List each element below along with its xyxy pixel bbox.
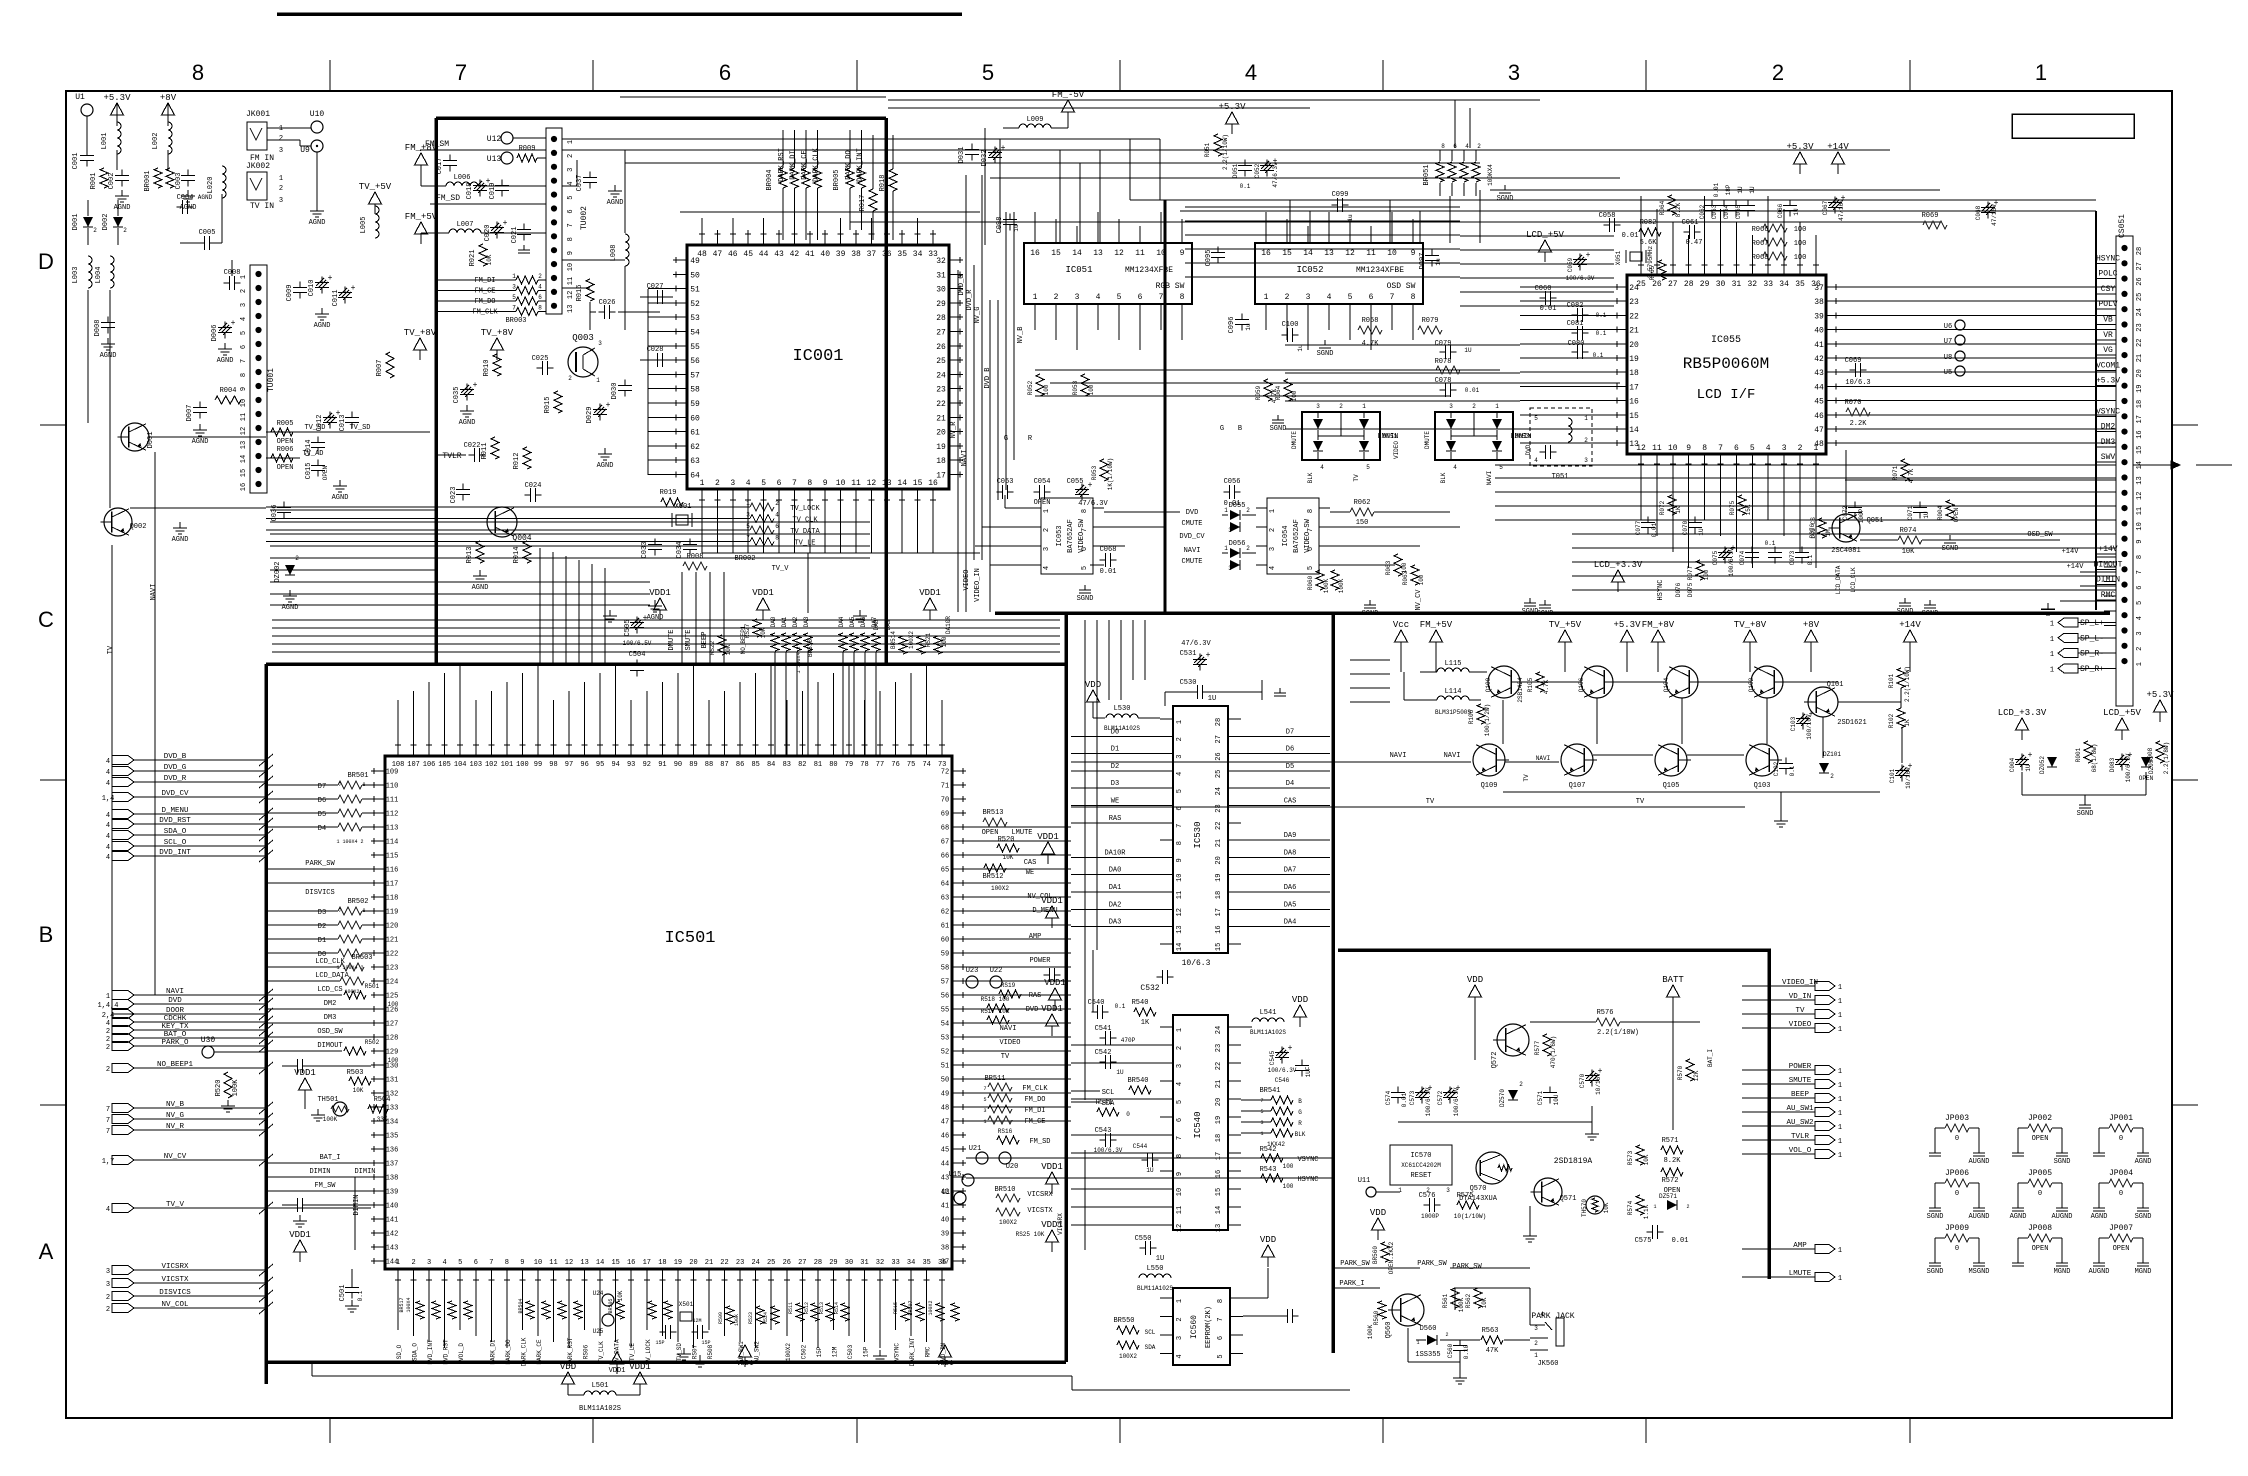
svg-text:R: R: [1298, 1120, 1302, 1127]
svg-text:BR507: BR507: [908, 1300, 914, 1315]
svg-text:12: 12: [1345, 249, 1355, 258]
svg-text:30: 30: [845, 1259, 853, 1267]
svg-text:100P: 100P: [1858, 508, 1865, 523]
connector TU002: [546, 128, 562, 314]
svg-text:TV_V: TV_V: [166, 1201, 185, 1209]
svg-text:7: 7: [1176, 824, 1184, 828]
svg-text:DA3: DA3: [1109, 919, 1122, 927]
svg-text:R062: R062: [1354, 499, 1371, 507]
svg-text:R079: R079: [1422, 317, 1439, 325]
capacitor C004r: [2021, 754, 2023, 760]
svg-text:BLK: BLK: [1295, 1131, 1306, 1138]
svg-text:C101: C101: [1889, 768, 1896, 783]
svg-text:D7: D7: [318, 783, 326, 791]
svg-text:3: 3: [106, 1268, 110, 1276]
svg-text:CAS: CAS: [1024, 859, 1037, 867]
wire bat dimin fmsw: [266, 1162, 371, 1164]
svg-text:TV: TV: [1523, 774, 1530, 782]
svg-text:TV: TV: [1636, 798, 1645, 806]
svg-text:L008: L008: [610, 245, 618, 262]
svg-text:7: 7: [1217, 1317, 1225, 1321]
svg-text:8: 8: [1411, 293, 1416, 302]
capacitor D006: [224, 322, 226, 328]
capacitor C053: [997, 491, 1003, 493]
resistor R004: [215, 396, 241, 404]
svg-text:VDD: VDD: [1467, 975, 1483, 985]
resistor R543: [1261, 1174, 1283, 1182]
svg-text:Q104: Q104: [1663, 677, 1670, 692]
svg-text:131: 131: [386, 1077, 399, 1085]
svg-text:100: 100: [1043, 384, 1050, 395]
svg-text:1: 1: [1416, 1340, 1419, 1346]
svg-text:U20: U20: [1006, 1163, 1019, 1171]
svg-text:66: 66: [941, 853, 949, 861]
svg-text:R514: R514: [834, 1302, 840, 1314]
svg-text:BLK: BLK: [1307, 472, 1314, 483]
svg-text:15: 15: [2136, 446, 2144, 454]
svg-text:10/16V: 10/16V: [1905, 767, 1912, 789]
svg-text:8: 8: [1702, 444, 1707, 453]
svg-text:RS25 10K: RS25 10K: [1016, 1231, 1045, 1238]
transistor Q004: [487, 507, 517, 537]
svg-text:17: 17: [1215, 1152, 1223, 1160]
svg-text:C009: C009: [286, 285, 294, 302]
wire top strip: [888, 99, 1540, 101]
svg-text:100K: 100K: [1367, 1324, 1374, 1339]
svg-text:R515: R515: [893, 1302, 899, 1314]
capacitor C560: [1459, 1340, 1461, 1346]
svg-text:7: 7: [1390, 293, 1395, 302]
svg-text:5: 5: [1217, 1354, 1225, 1358]
power +8V arrow: [162, 103, 175, 115]
svg-text:13: 13: [1093, 249, 1103, 258]
svg-text:24: 24: [2136, 308, 2144, 316]
power FM +5V arrow: [415, 222, 428, 234]
resistor R516: [997, 1136, 1019, 1144]
svg-text:19: 19: [1215, 873, 1223, 881]
svg-text:1: 1: [1260, 1131, 1263, 1137]
svg-text:DM3: DM3: [324, 1014, 337, 1022]
capacitor C001: [86, 150, 88, 156]
svg-text:1K: 1K: [1904, 719, 1911, 727]
svg-text:11: 11: [549, 1259, 557, 1267]
svg-text:62: 62: [941, 909, 949, 917]
svg-text:10: 10: [1387, 249, 1397, 258]
svg-text:10: 10: [836, 479, 846, 488]
svg-text:R001: R001: [90, 173, 98, 190]
svg-text:18: 18: [1215, 1134, 1223, 1142]
svg-text:AU_SW1: AU_SW1: [1786, 1105, 1814, 1113]
transistor Q102: [1751, 666, 1783, 698]
svg-text:IC051: IC051: [1065, 265, 1092, 275]
svg-text:89: 89: [689, 761, 697, 769]
svg-text:G: G: [1004, 435, 1008, 443]
svg-text:L003: L003: [72, 267, 80, 284]
wire ic001 top bus: [720, 138, 1160, 140]
svg-text:SCL_O: SCL_O: [164, 839, 187, 847]
wire tv_v: [266, 1207, 371, 1209]
svg-text:5: 5: [1176, 1100, 1184, 1104]
svg-text:R508: R508: [707, 1344, 714, 1359]
svg-text:2: 2: [106, 1044, 110, 1052]
op-amp U IC054 video switch: [1267, 498, 1319, 574]
svg-text:8: 8: [1081, 509, 1089, 513]
svg-text:103: 103: [469, 761, 482, 769]
svg-text:TV_SD: TV_SD: [676, 1343, 683, 1361]
svg-text:FM_CLK: FM_CLK: [472, 309, 498, 317]
resistor BR540: [1129, 1086, 1151, 1094]
svg-text:101: 101: [501, 761, 514, 769]
section border tuner right: [884, 118, 888, 664]
resistor R065: [1658, 260, 1666, 280]
svg-text:1: 1: [700, 479, 705, 488]
svg-text:8: 8: [1180, 293, 1185, 302]
svg-text:C075: C075: [1712, 550, 1719, 565]
svg-text:6: 6: [1176, 1118, 1184, 1122]
svg-text:JK001: JK001: [246, 110, 270, 119]
resistor network BR502: [338, 907, 362, 915]
svg-text:1 100X4 2: 1 100X4 2: [336, 839, 363, 845]
wire fm5v: [420, 233, 422, 237]
inductor L009: [1019, 124, 1051, 128]
inductor L020: [222, 166, 226, 198]
svg-text:14: 14: [1303, 249, 1313, 258]
svg-text:1: 1: [2050, 651, 2054, 659]
svg-text:BLM11A102S: BLM11A102S: [579, 1405, 621, 1413]
svg-text:DA8: DA8: [1284, 849, 1297, 857]
transistor Q106: [1581, 666, 1613, 698]
svg-text:SDA_O: SDA_O: [164, 828, 187, 836]
wire bus ic530 right: [1241, 735, 1330, 737]
svg-text:23: 23: [736, 1259, 744, 1267]
svg-text:100X2: 100X2: [928, 1300, 934, 1315]
svg-text:DVD_G: DVD_G: [958, 274, 966, 295]
svg-text:SGND: SGND: [1537, 610, 1554, 618]
svg-text:U5: U5: [1944, 369, 1952, 377]
resistor BR550: [1117, 1326, 1139, 1334]
resistor BR001: [154, 168, 162, 188]
svg-text:TV_+5V: TV_+5V: [1549, 620, 1582, 630]
svg-text:116: 116: [386, 867, 399, 875]
svg-text:VICSRX: VICSRX: [1027, 1191, 1053, 1199]
svg-text:POWER: POWER: [1789, 1063, 1812, 1071]
svg-text:0: 0: [2038, 1190, 2042, 1198]
svg-text:L020: L020: [207, 177, 215, 194]
svg-text:R015: R015: [544, 397, 552, 414]
op-amp U IC501 system micom: [385, 756, 952, 1269]
svg-text:3: 3: [1584, 457, 1588, 464]
svg-text:2: 2: [567, 154, 575, 158]
transistor Q109: [1473, 744, 1505, 776]
svg-text:78: 78: [860, 761, 868, 769]
capacitor C017: [449, 155, 451, 161]
capacitor C102: [1785, 758, 1787, 764]
svg-text:14: 14: [240, 455, 248, 463]
svg-text:8: 8: [1176, 841, 1184, 845]
svg-text:70: 70: [941, 797, 949, 805]
crystal X001: [676, 515, 688, 525]
wire park_sw disvics: [266, 868, 371, 870]
capacitor C056: [1224, 491, 1230, 493]
svg-text:1: 1: [1838, 1275, 1842, 1283]
svg-text:BR001: BR001: [144, 170, 152, 191]
svg-text:OPEN: OPEN: [277, 438, 294, 446]
svg-text:DA9: DA9: [1284, 832, 1297, 840]
capacitor C013: [351, 412, 353, 418]
svg-text:1: 1: [1838, 1152, 1842, 1160]
resistor R574: [1636, 1195, 1644, 1215]
arrow right border: [2133, 464, 2176, 466]
svg-text:BR501: BR501: [347, 772, 368, 780]
svg-text:86: 86: [736, 761, 744, 769]
svg-text:25: 25: [1215, 770, 1223, 778]
resistor network BR051: [1436, 162, 1444, 182]
svg-text:AMP: AMP: [1029, 933, 1042, 941]
capacitor C037: [589, 172, 591, 178]
svg-text:26: 26: [2136, 277, 2144, 285]
svg-text:1U: 1U: [1116, 1069, 1124, 1076]
svg-text:TV_+8V: TV_+8V: [481, 328, 514, 338]
svg-text:54: 54: [690, 329, 700, 338]
svg-text:FM_SW: FM_SW: [314, 1182, 336, 1190]
svg-text:3: 3: [1228, 527, 1232, 534]
svg-text:14: 14: [897, 479, 907, 488]
svg-text:3: 3: [1449, 403, 1453, 410]
svg-text:OSD SW: OSD SW: [1387, 282, 1416, 291]
section border ic501 bottom: [266, 1360, 1066, 1364]
svg-text:Q103: Q103: [1754, 782, 1771, 790]
resistor R101: [1897, 668, 1905, 688]
svg-text:6: 6: [240, 345, 248, 349]
svg-text:C077: C077: [1635, 520, 1642, 535]
inductor L006: [446, 182, 478, 186]
section border tuner top: [436, 116, 886, 120]
svg-text:D056: D056: [1229, 540, 1246, 548]
svg-text:D5: D5: [318, 811, 326, 819]
svg-text:NAVI: NAVI: [150, 584, 158, 601]
svg-text:1: 1: [1224, 507, 1228, 514]
inductor L004: [110, 256, 114, 288]
svg-text:27: 27: [2136, 262, 2144, 270]
power FM +8V arrow: [415, 153, 428, 165]
svg-text:+: +: [1088, 481, 1093, 490]
svg-text:NV_R: NV_R: [950, 421, 958, 439]
svg-text:R010: R010: [483, 360, 491, 377]
svg-text:Q002: Q002: [130, 523, 147, 531]
svg-text:FM_DO: FM_DO: [1024, 1096, 1045, 1104]
svg-text:5: 5: [982, 60, 994, 85]
svg-text:1: 1: [1838, 1068, 1842, 1076]
svg-text:VDD1: VDD1: [1037, 832, 1059, 842]
svg-text:123: 123: [386, 965, 399, 973]
svg-text:1 100X4 2: 1 100X4 2: [796, 646, 802, 673]
capacitor C008: [224, 282, 230, 284]
svg-text:3: 3: [106, 1281, 110, 1289]
svg-text:D7: D7: [1286, 728, 1294, 736]
svg-text:11: 11: [851, 479, 861, 488]
capacitor C033: [654, 539, 656, 545]
svg-text:L001: L001: [101, 133, 109, 150]
ground AGND q003: [604, 448, 606, 454]
svg-text:BLM11A102S: BLM11A102S: [1104, 725, 1140, 732]
resistor RS19: [999, 990, 1021, 998]
svg-text:100/6.3V: 100/6.3V: [1453, 1087, 1460, 1116]
svg-text:D055: D055: [1229, 502, 1246, 510]
svg-text:VDD: VDD: [560, 1362, 576, 1372]
svg-text:Q106: Q106: [1578, 677, 1585, 692]
diode D055: [1230, 510, 1240, 520]
svg-text:102: 102: [485, 761, 498, 769]
svg-text:43: 43: [774, 250, 784, 259]
power LCD+3.3V arrow: [1612, 570, 1625, 582]
svg-text:8: 8: [1217, 1299, 1225, 1303]
svg-text:9: 9: [823, 479, 828, 488]
svg-text:85: 85: [751, 761, 759, 769]
svg-text:+: +: [503, 219, 508, 228]
svg-text:C081: C081: [1567, 320, 1584, 328]
svg-text:DA3: DA3: [803, 616, 810, 627]
svg-text:C574: C574: [1385, 1090, 1392, 1105]
capacitor C541: [1100, 1037, 1106, 1039]
svg-text:7: 7: [567, 223, 575, 227]
svg-text:DA9: DA9: [885, 619, 892, 630]
svg-text:+: +: [643, 614, 648, 623]
svg-text:SGND: SGND: [2054, 1158, 2071, 1166]
svg-text:D1: D1: [318, 937, 326, 945]
op-amp U IC001 microcontroller: [687, 245, 949, 489]
svg-text:RESET: RESET: [1410, 1172, 1431, 1180]
svg-text:NAVI: NAVI: [1536, 755, 1550, 762]
svg-text:1U: 1U: [1923, 511, 1930, 519]
svg-text:18: 18: [1215, 891, 1223, 899]
svg-text:C063: C063: [1711, 204, 1718, 219]
capacitor C019: [501, 180, 503, 186]
svg-text:8: 8: [1307, 509, 1315, 513]
svg-text:JP001: JP001: [2109, 1114, 2133, 1123]
svg-text:R051: R051: [1204, 142, 1211, 157]
svg-text:BAT_I: BAT_I: [319, 1154, 340, 1162]
svg-text:100K: 100K: [1338, 578, 1345, 593]
section border park right: [1767, 950, 1771, 1279]
svg-text:2SD1819A: 2SD1819A: [1554, 1157, 1593, 1166]
svg-text:82: 82: [798, 761, 806, 769]
svg-text:DA4: DA4: [1284, 919, 1297, 927]
section border ic501 top: [266, 662, 1066, 666]
svg-text:50: 50: [690, 271, 700, 280]
svg-text:C003: C003: [175, 173, 183, 190]
svg-text:NV_COL: NV_COL: [161, 1301, 189, 1309]
svg-text:69: 69: [941, 811, 949, 819]
svg-text:D053: D053: [1515, 433, 1530, 440]
svg-text:JP005: JP005: [2028, 1169, 2052, 1178]
svg-text:OPEN.1KX2: OPEN.1KX2: [1388, 1241, 1395, 1274]
svg-text:+: +: [1586, 251, 1591, 260]
svg-text:59: 59: [690, 400, 700, 409]
svg-text:111: 111: [386, 797, 399, 805]
svg-text:VDD1: VDD1: [937, 1360, 954, 1368]
svg-text:D3: D3: [1111, 780, 1119, 788]
svg-text:SGND: SGND: [1897, 608, 1914, 616]
svg-text:16: 16: [1030, 249, 1040, 258]
svg-text:42: 42: [790, 250, 800, 259]
svg-text:U21: U21: [969, 1145, 982, 1153]
svg-text:2: 2: [106, 1028, 110, 1036]
capacitor C575: [1647, 1231, 1653, 1233]
svg-text:4: 4: [1096, 293, 1101, 302]
svg-text:3: 3: [279, 147, 283, 155]
wire ic001 top pin drops: [701, 218, 703, 231]
svg-text:+5.3V: +5.3V: [1786, 142, 1814, 152]
node U12: [501, 132, 513, 144]
svg-text:VIDEO SW: VIDEO SW: [1304, 518, 1312, 552]
svg-text:13: 13: [580, 1259, 588, 1267]
svg-text:13: 13: [1176, 925, 1184, 933]
svg-text:C073: C073: [1789, 550, 1796, 565]
svg-text:DIMOUT: DIMOUT: [317, 1042, 342, 1050]
svg-text:100K: 100K: [1323, 578, 1330, 593]
capacitor pin130: [292, 1065, 298, 1067]
svg-text:37: 37: [941, 1259, 949, 1267]
svg-text:PARK_SW: PARK_SW: [1340, 1260, 1370, 1268]
svg-text:19: 19: [2136, 384, 2144, 392]
svg-text:IC055: IC055: [1711, 335, 1741, 346]
svg-text:L002: L002: [152, 133, 160, 150]
svg-text:AUGND: AUGND: [1968, 1158, 1989, 1166]
svg-text:OPEN: OPEN: [277, 464, 294, 472]
svg-text:65: 65: [941, 867, 949, 875]
svg-text:19: 19: [1629, 355, 1639, 364]
svg-text:2.2(1/8W): 2.2(1/8W): [2163, 742, 2170, 774]
svg-text:C023: C023: [450, 487, 458, 504]
svg-text:117: 117: [386, 881, 399, 889]
svg-text:2: 2: [279, 185, 283, 193]
svg-text:BR516: BR516: [807, 639, 814, 657]
node U14: [954, 1192, 966, 1204]
svg-text:136: 136: [386, 1147, 399, 1155]
svg-text:NV_CV: NV_CV: [164, 1153, 187, 1161]
svg-text:SP_R-: SP_R-: [2080, 650, 2104, 659]
svg-text:DZ051: DZ051: [2148, 756, 2155, 774]
svg-text:RS19: RS19: [1001, 982, 1016, 989]
svg-text:C002: C002: [108, 173, 116, 190]
transistor Q104: [1666, 666, 1698, 698]
svg-text:57: 57: [690, 371, 700, 380]
svg-text:NV_CV: NV_CV: [1415, 589, 1423, 611]
svg-text:VIDEO: VIDEO: [1393, 441, 1400, 459]
svg-text:D051: D051: [1383, 433, 1398, 440]
svg-text:10K: 10K: [1902, 548, 1915, 556]
op-amp U IC055 RB5P0060M LCD interface: [1627, 275, 1826, 454]
svg-text:SGND: SGND: [1922, 610, 1939, 618]
svg-text:+14V: +14V: [2067, 563, 2085, 571]
node U8: [1955, 351, 1965, 361]
capacitor D007: [199, 402, 201, 408]
svg-text:CMUTE: CMUTE: [1181, 520, 1202, 528]
svg-text:U23: U23: [966, 967, 979, 975]
svg-text:0: 0: [1665, 273, 1672, 277]
resistor BR510: [996, 1194, 1020, 1202]
svg-text:BAT_I: BAT_I: [1707, 1049, 1714, 1067]
svg-text:R502: R502: [365, 1039, 380, 1046]
wire right mid bus to cs051: [1495, 464, 2116, 466]
resistor network BR511: [988, 1083, 1012, 1091]
svg-text:16: 16: [240, 483, 248, 491]
diode bridge D051 lumin: [1302, 412, 1380, 460]
svg-text:DZ052: DZ052: [2039, 756, 2046, 774]
svg-text:IC530: IC530: [1193, 821, 1203, 848]
svg-text:39: 39: [1814, 312, 1824, 321]
svg-text:51: 51: [941, 1063, 949, 1071]
